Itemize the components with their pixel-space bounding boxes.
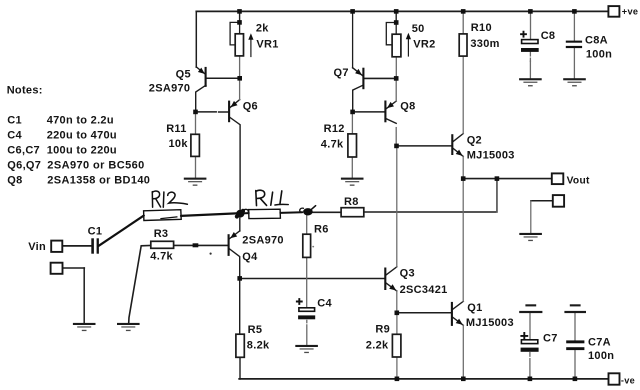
svg-text:Vin: Vin (28, 241, 46, 253)
svg-text:330m: 330m (470, 38, 499, 50)
svg-text:C7: C7 (543, 332, 558, 344)
svg-text:50: 50 (412, 23, 425, 35)
svg-text:2SA970 or BC560: 2SA970 or BC560 (47, 159, 144, 171)
svg-text:10k: 10k (169, 138, 189, 150)
svg-text:Q6,Q7: Q6,Q7 (7, 159, 41, 171)
svg-text:Q2: Q2 (467, 135, 482, 147)
svg-text:220u to 470u: 220u to 470u (47, 129, 117, 141)
svg-text:2SA970: 2SA970 (242, 235, 284, 247)
svg-text:2SC3421: 2SC3421 (400, 284, 448, 296)
svg-text:Q5: Q5 (176, 69, 191, 81)
svg-text:VR2: VR2 (413, 39, 435, 51)
svg-text:R10: R10 (471, 22, 492, 34)
svg-text:+ve: +ve (622, 7, 639, 17)
svg-text:C7A: C7A (588, 336, 611, 348)
svg-text:Notes:: Notes: (7, 84, 43, 96)
svg-text:C4: C4 (7, 129, 22, 141)
svg-text:100n: 100n (588, 350, 614, 362)
svg-text:R9: R9 (375, 323, 390, 335)
svg-text:R8: R8 (344, 196, 359, 208)
svg-text:4.7k: 4.7k (321, 138, 344, 150)
svg-text:-ve: -ve (621, 375, 635, 385)
svg-text:Q8: Q8 (7, 174, 22, 186)
svg-text:100n: 100n (586, 49, 612, 61)
svg-text:MJ15003: MJ15003 (466, 317, 514, 329)
svg-text:Q8: Q8 (400, 100, 415, 112)
svg-text:R5: R5 (248, 324, 263, 336)
svg-text:Q7: Q7 (334, 67, 349, 79)
svg-text:C8: C8 (541, 30, 556, 42)
svg-text:Vout: Vout (567, 175, 590, 186)
svg-text:470n to 2.2u: 470n to 2.2u (47, 114, 114, 126)
svg-text:100u to 220u: 100u to 220u (47, 144, 117, 156)
svg-text:Q3: Q3 (400, 267, 415, 279)
svg-text:Q6: Q6 (243, 100, 258, 112)
svg-text:MJ15003: MJ15003 (467, 149, 515, 161)
svg-text:2k: 2k (256, 23, 269, 35)
svg-text:2SA1358 or BD140: 2SA1358 or BD140 (47, 174, 150, 186)
svg-text:2SA970: 2SA970 (149, 82, 191, 94)
svg-text:C6,C7: C6,C7 (7, 144, 40, 156)
svg-text:8.2k: 8.2k (247, 339, 270, 351)
svg-text:R6: R6 (314, 224, 329, 236)
svg-text:VR1: VR1 (256, 39, 278, 51)
svg-text:Q4: Q4 (242, 251, 258, 263)
svg-text:R12: R12 (324, 123, 345, 135)
svg-text:2.2k: 2.2k (366, 340, 389, 352)
svg-text:R11: R11 (166, 123, 186, 135)
svg-text:C1: C1 (7, 114, 22, 126)
svg-text:4.7k: 4.7k (150, 250, 173, 262)
svg-text:R3: R3 (154, 228, 169, 240)
svg-text:C8A: C8A (585, 34, 608, 46)
svg-text:C4: C4 (317, 297, 332, 309)
svg-text:C1: C1 (88, 225, 103, 237)
svg-text:Q1: Q1 (467, 302, 482, 314)
